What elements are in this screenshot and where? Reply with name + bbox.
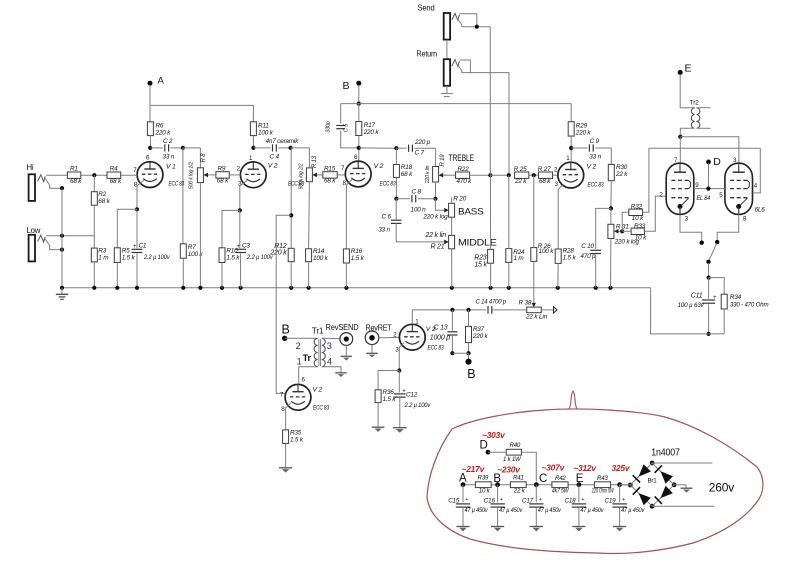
- svg-text:B: B: [282, 323, 290, 337]
- label Hi: [27, 163, 34, 172]
- svg-text:Tr: Tr: [303, 353, 312, 363]
- svg-text:22 k: 22 k: [514, 178, 527, 185]
- svg-text:~312v: ~312v: [573, 463, 597, 473]
- svg-text:R43: R43: [597, 475, 608, 482]
- svg-text:R23: R23: [474, 254, 487, 261]
- svg-text:C 4: C 4: [270, 154, 280, 161]
- resistor R7: [180, 244, 203, 258]
- wire: [121, 174, 138, 176]
- svg-text:1000 p: 1000 p: [430, 335, 451, 342]
- svg-text:220 k log: 220 k log: [422, 214, 448, 221]
- connector RevRET: [365, 323, 391, 345]
- wire: [622, 230, 631, 232]
- svg-text:R29: R29: [576, 122, 588, 129]
- svg-text:R32: R32: [631, 204, 643, 211]
- wire: [341, 104, 359, 124]
- resistor R11: [250, 122, 273, 137]
- svg-text:V 2: V 2: [374, 163, 384, 170]
- resistor R42: [552, 475, 570, 494]
- transformer Tr2: [690, 100, 700, 129]
- wire: [452, 353, 468, 360]
- transformer Tr1: [296, 326, 332, 367]
- wire: [680, 74, 694, 108]
- label Low: [27, 226, 41, 235]
- capacitor C17: [522, 485, 562, 526]
- svg-text:R34: R34: [730, 294, 742, 301]
- tube V1 ECC83: [133, 154, 184, 188]
- resistor R18: [393, 164, 413, 178]
- svg-text:10 k: 10 k: [635, 234, 647, 241]
- capacitor C16: [484, 485, 523, 526]
- svg-text:C 13: C 13: [434, 324, 448, 331]
- svg-text:V 2: V 2: [313, 387, 323, 394]
- svg-text:68 k: 68 k: [98, 198, 110, 205]
- svg-text:R5: R5: [122, 247, 130, 254]
- svg-text:100 k: 100 k: [539, 248, 555, 255]
- wire: [317, 174, 345, 176]
- label Return: [417, 50, 438, 59]
- tube EL84: [659, 157, 710, 222]
- resistor R2: [91, 191, 110, 205]
- label ~230v: [497, 464, 521, 474]
- svg-text:C 14 4700 p: C 14 4700 p: [476, 299, 507, 306]
- svg-text:47 µ 450v: 47 µ 450v: [499, 508, 523, 514]
- wire: [508, 175, 510, 288]
- svg-text:1: 1: [297, 356, 302, 366]
- svg-text:A: A: [158, 76, 165, 87]
- svg-text:RevSEND: RevSEND: [326, 322, 359, 332]
- wire: [459, 14, 476, 27]
- svg-text:R35: R35: [290, 429, 302, 436]
- node A psu: [459, 472, 467, 484]
- svg-text:68 k: 68 k: [539, 178, 551, 185]
- wire: [651, 288, 725, 334]
- red marker loop: [427, 391, 763, 554]
- ground: [393, 428, 407, 433]
- ground: [681, 488, 693, 492]
- resistor R30: [608, 164, 628, 181]
- jack Hi: [29, 174, 46, 201]
- svg-text:1.5 k: 1.5 k: [290, 436, 304, 443]
- wire: [199, 183, 201, 288]
- wire: [358, 104, 360, 122]
- svg-text:C 5: C 5: [344, 123, 350, 132]
- svg-text:3: 3: [327, 341, 332, 351]
- resistor R41: [510, 475, 526, 495]
- svg-text:B: B: [467, 367, 475, 381]
- svg-text:R22: R22: [458, 166, 470, 173]
- potentiometer R21 middle: [424, 232, 454, 250]
- wire: [680, 214, 702, 240]
- svg-text:10 k: 10 k: [632, 215, 644, 222]
- capacitor C12: [394, 388, 431, 409]
- svg-text:V 1: V 1: [166, 164, 176, 171]
- wire: [136, 254, 138, 288]
- wire: [680, 137, 739, 164]
- capacitor C15: [448, 485, 488, 526]
- wire psu rail: [461, 482, 631, 487]
- wire: [488, 451, 506, 453]
- capacitor C19: [605, 485, 646, 526]
- wire: [533, 261, 535, 303]
- svg-text:C19: C19: [605, 498, 617, 505]
- node B psu: [493, 473, 501, 485]
- wire: [116, 263, 118, 288]
- wire: [357, 136, 361, 162]
- svg-text:22 k lin: 22 k lin: [424, 232, 446, 239]
- wire: [570, 104, 572, 122]
- label 325v: [612, 463, 631, 473]
- tube V2 ECC83 (4th): [554, 155, 604, 189]
- svg-text:500 k log 1/2: 500 k log 1/2: [189, 162, 195, 189]
- svg-text:68 k: 68 k: [217, 178, 229, 185]
- svg-text:A: A: [459, 472, 467, 484]
- wire: [341, 131, 359, 148]
- wire: [135, 180, 144, 211]
- svg-text:47 µ 450v: 47 µ 450v: [621, 508, 645, 514]
- svg-text:+: +: [581, 497, 584, 503]
- svg-text:B: B: [493, 473, 501, 485]
- svg-text:C3: C3: [242, 243, 250, 250]
- svg-text:47 µ 450v: 47 µ 450v: [580, 508, 604, 514]
- wire: [456, 17, 490, 29]
- svg-text:Send: Send: [418, 4, 435, 13]
- svg-text:470 p: 470 p: [580, 253, 596, 260]
- svg-text:100 k: 100 k: [258, 129, 274, 136]
- svg-text:1.5 k: 1.5 k: [226, 254, 240, 261]
- svg-text:22 k Lin: 22 k Lin: [525, 314, 548, 321]
- ground: [366, 353, 377, 357]
- resistor R33: [631, 223, 647, 241]
- svg-text:68 k: 68 k: [324, 178, 336, 185]
- potentiometer R8: [189, 153, 208, 189]
- svg-text:R 19: R 19: [440, 154, 446, 167]
- node A: [148, 76, 165, 122]
- wire: [299, 367, 318, 385]
- ground: [372, 427, 385, 432]
- terminal arrow: [554, 306, 558, 314]
- svg-text:33 n: 33 n: [378, 227, 390, 234]
- wire: [398, 371, 400, 393]
- jack Low: [29, 235, 46, 262]
- diode D3: [633, 487, 651, 505]
- capacitor C1: [132, 243, 171, 262]
- svg-text:100 n: 100 n: [411, 207, 427, 214]
- wire: [717, 214, 739, 240]
- svg-text:220 k: 220 k: [472, 333, 489, 340]
- wire: [451, 249, 453, 288]
- svg-text:330p: 330p: [326, 121, 332, 132]
- wire: [433, 182, 437, 201]
- wire: [489, 27, 491, 176]
- svg-text:C 7: C 7: [415, 149, 425, 156]
- svg-text:R15: R15: [324, 165, 336, 172]
- wire: [569, 136, 573, 162]
- ground: [456, 527, 469, 532]
- wire: [285, 337, 316, 339]
- wire: [379, 336, 400, 338]
- wire grid EL84/6L6: [649, 148, 760, 193]
- svg-text:R36: R36: [383, 389, 395, 396]
- potentiometer R38: [519, 300, 548, 321]
- svg-text:+: +: [539, 497, 542, 503]
- ground: [335, 373, 346, 377]
- wire: [395, 199, 397, 221]
- svg-text:EL 84: EL 84: [697, 195, 711, 202]
- resistor R22: [456, 166, 473, 185]
- svg-text:R9: R9: [218, 165, 226, 172]
- svg-text:R4: R4: [110, 165, 118, 172]
- svg-text:ECC 83: ECC 83: [313, 404, 329, 411]
- wire: [674, 485, 686, 488]
- capacitor C3: [235, 243, 273, 262]
- svg-text:2.2 µ 100v: 2.2 µ 100v: [404, 402, 431, 409]
- svg-text:R28: R28: [563, 248, 575, 255]
- potentiometer R31: [608, 208, 640, 245]
- wire: [679, 137, 681, 164]
- wire: [553, 174, 558, 176]
- svg-text:33 n: 33 n: [163, 154, 175, 161]
- capacitor C4: [266, 138, 300, 161]
- capacitor C10: [580, 243, 601, 260]
- svg-text:220 Ohm 5W: 220 Ohm 5W: [591, 487, 614, 494]
- svg-text:R42: R42: [555, 475, 566, 482]
- svg-text:C 6: C 6: [382, 214, 392, 221]
- wire: [466, 310, 470, 355]
- svg-text:D: D: [713, 156, 721, 168]
- svg-text:C 2: C 2: [163, 138, 173, 145]
- wire: [643, 148, 649, 212]
- jack Send: [444, 13, 460, 40]
- svg-text:+: +: [465, 497, 468, 503]
- wire: [397, 343, 404, 373]
- resistor R15: [323, 165, 337, 184]
- wire: [285, 443, 287, 467]
- node B: [343, 80, 362, 106]
- resistor R10: [219, 247, 240, 262]
- svg-text:Low: Low: [27, 226, 41, 235]
- svg-text:220 k: 220 k: [363, 129, 380, 136]
- tube V2 ECC83 (reverb driver): [280, 377, 329, 413]
- bridge rectifier Br1: [628, 461, 677, 509]
- wire: [222, 210, 240, 247]
- svg-text:R17: R17: [364, 122, 376, 129]
- resistor R23: [474, 249, 493, 268]
- svg-text:220 k lin: 220 k lin: [425, 165, 431, 184]
- wire: [619, 229, 625, 233]
- wire: [345, 263, 347, 288]
- resistor R4: [107, 165, 122, 185]
- wire: [377, 403, 379, 427]
- svg-text:4: 4: [327, 356, 332, 366]
- wire: [709, 278, 725, 295]
- svg-text:R 21: R 21: [431, 243, 445, 250]
- svg-text:R33: R33: [634, 223, 646, 230]
- wire: [707, 304, 711, 336]
- wire: [609, 181, 613, 211]
- tube V2 ECC83 (3rd): [341, 154, 396, 187]
- wire: [394, 148, 398, 201]
- svg-text:1 m: 1 m: [98, 254, 109, 261]
- wire: [490, 173, 511, 177]
- label ~307v: [542, 463, 566, 473]
- svg-text:220 p: 220 p: [414, 139, 431, 146]
- wire: [117, 209, 137, 248]
- svg-text:1.5 k: 1.5 k: [563, 255, 577, 262]
- wire: [359, 146, 399, 150]
- resistor R5: [114, 247, 135, 262]
- svg-text:220 k: 220 k: [575, 129, 592, 136]
- wire: [136, 209, 138, 248]
- node B reverb: [282, 323, 290, 341]
- node D: [706, 156, 721, 189]
- wire: [93, 175, 95, 192]
- ground: [491, 527, 504, 532]
- wire: [81, 173, 107, 177]
- svg-text:R30: R30: [616, 164, 628, 171]
- capacitor C13: [430, 324, 458, 341]
- label ~217v: [462, 464, 486, 474]
- wire: [221, 263, 223, 288]
- diode D2: [655, 465, 673, 483]
- label Send: [418, 4, 435, 13]
- svg-text:1.5 k: 1.5 k: [122, 254, 136, 261]
- resistor R28: [555, 248, 576, 264]
- wire: [492, 309, 527, 311]
- wire: [238, 180, 248, 212]
- wire: [678, 128, 694, 139]
- connector RevSEND: [326, 322, 359, 345]
- wire: [150, 147, 163, 149]
- wire: [286, 403, 291, 430]
- resistor R25: [514, 166, 529, 185]
- wire: [276, 215, 291, 393]
- wire: [412, 308, 486, 325]
- svg-text:1 m: 1 m: [514, 255, 525, 262]
- tube 6L6: [719, 157, 765, 223]
- wire: [450, 310, 454, 355]
- wire: [45, 239, 64, 252]
- wire A rail: [150, 105, 253, 121]
- ground: [441, 86, 453, 97]
- svg-text:TREBLE: TREBLE: [449, 153, 475, 163]
- wire: [443, 173, 492, 177]
- label 1n4007: [651, 447, 680, 458]
- wire: [346, 180, 352, 249]
- node C psu: [539, 473, 547, 485]
- wire: [239, 210, 242, 287]
- wire: [396, 223, 449, 244]
- wire: [322, 337, 340, 339]
- capacitor C6: [378, 214, 401, 234]
- svg-text:4k7 5W: 4k7 5W: [552, 488, 570, 495]
- label BASS: [458, 207, 484, 217]
- wire AC2: [652, 505, 714, 507]
- label ~303v: [482, 430, 506, 440]
- svg-text:R40: R40: [510, 442, 521, 449]
- svg-text:2.2 µ 100v: 2.2 µ 100v: [246, 254, 273, 261]
- ground: [613, 527, 626, 532]
- svg-text:ECC 83: ECC 83: [380, 180, 396, 187]
- svg-text:325v: 325v: [612, 463, 631, 473]
- svg-text:B: B: [343, 80, 350, 92]
- svg-text:68 k: 68 k: [70, 178, 82, 185]
- svg-text:2.2 µ 100v: 2.2 µ 100v: [143, 254, 170, 261]
- resistor R27: [538, 166, 553, 185]
- switch cathode select: [700, 240, 720, 264]
- wire: [251, 136, 270, 150]
- wire: [371, 345, 373, 353]
- wire: [489, 175, 491, 288]
- resistor R3: [91, 247, 109, 262]
- svg-text:BASS: BASS: [458, 207, 484, 217]
- svg-text:C 9: C 9: [590, 138, 600, 145]
- capacitor C11: [678, 293, 718, 310]
- wire: [521, 452, 536, 481]
- diode D4: [655, 486, 673, 504]
- resistor R17: [356, 122, 380, 137]
- diode D1: [633, 464, 651, 482]
- wire ground bus: [60, 286, 651, 290]
- svg-text:D: D: [480, 439, 488, 451]
- svg-text:C18: C18: [565, 498, 577, 505]
- svg-text:R14: R14: [313, 248, 325, 255]
- wire: [508, 73, 510, 176]
- wire: [446, 40, 448, 60]
- wire: [558, 185, 562, 249]
- svg-text:Br1: Br1: [648, 478, 658, 485]
- wire: [435, 199, 448, 213]
- wire wiper R38: [532, 303, 536, 307]
- svg-text:C16: C16: [484, 498, 496, 505]
- wire: [208, 174, 241, 176]
- wire: [93, 262, 95, 288]
- svg-text:~303v: ~303v: [482, 430, 506, 440]
- svg-text:68 k: 68 k: [401, 171, 413, 178]
- tube V2 ECC83 (2nd): [237, 155, 305, 188]
- svg-text:1.5 k: 1.5 k: [351, 255, 365, 262]
- node B reverb out: [465, 359, 475, 381]
- wire: [707, 263, 711, 280]
- wire: [571, 147, 587, 149]
- svg-text:1n4007: 1n4007: [651, 447, 680, 458]
- resistor R9: [216, 165, 229, 184]
- svg-text:V 2: V 2: [268, 163, 278, 170]
- capacitor C8: [411, 189, 427, 214]
- capacitor C14: [476, 299, 507, 314]
- capacitor C2: [163, 138, 175, 161]
- wire: [290, 262, 292, 288]
- svg-text:10 k: 10 k: [479, 488, 491, 495]
- wire: [46, 174, 67, 176]
- svg-text:100 µ 63v: 100 µ 63v: [678, 302, 705, 309]
- svg-text:C15: C15: [448, 498, 460, 505]
- wire: [456, 63, 509, 73]
- wire AC1: [652, 462, 712, 464]
- svg-text:470 k: 470 k: [457, 178, 473, 185]
- svg-text:100 k: 100 k: [313, 255, 329, 262]
- wire: [378, 371, 399, 390]
- resistor R43: [591, 475, 614, 494]
- svg-text:1 k 1W: 1 k 1W: [503, 456, 522, 463]
- resistor R37: [466, 326, 489, 343]
- svg-text:C 8: C 8: [412, 189, 422, 196]
- ground: [341, 356, 352, 360]
- resistor R24: [506, 249, 525, 263]
- label MIDDLE: [458, 238, 497, 248]
- resistor R39: [475, 475, 491, 495]
- svg-text:R7: R7: [188, 244, 196, 251]
